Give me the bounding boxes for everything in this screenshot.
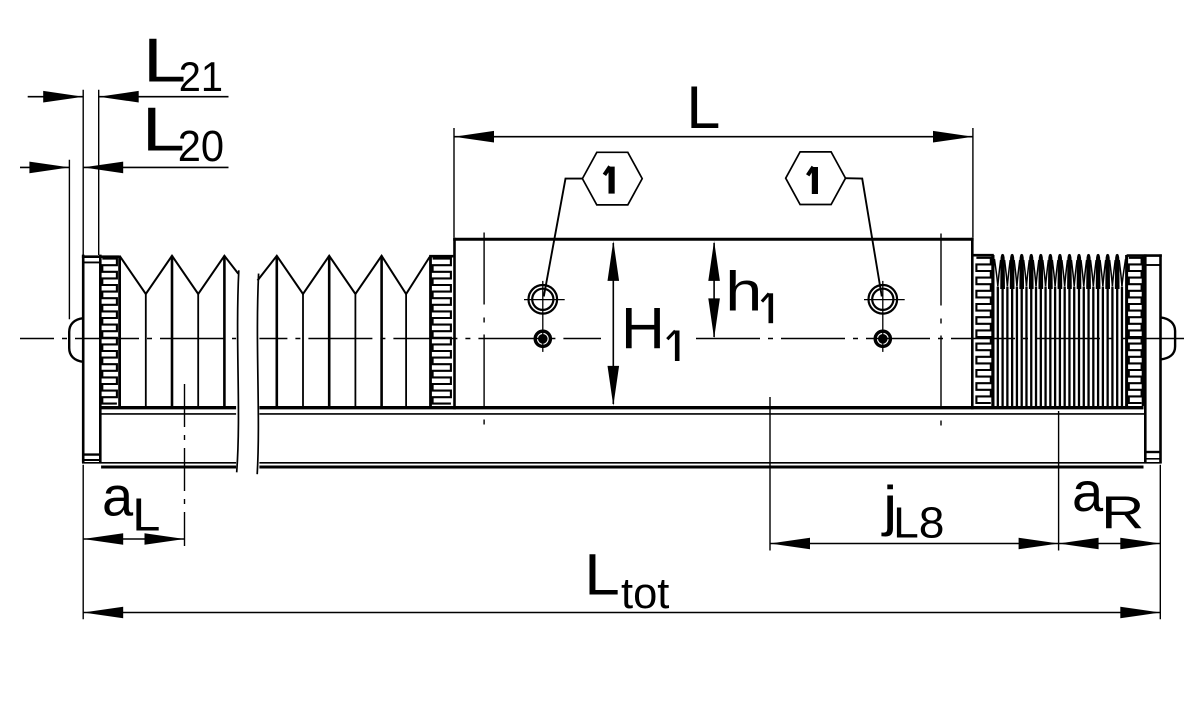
- svg-text:L: L: [584, 542, 620, 607]
- svg-text:R: R: [1101, 488, 1144, 539]
- svg-text:H: H: [621, 295, 665, 361]
- svg-text:L8: L8: [893, 498, 944, 548]
- svg-text:21: 21: [179, 53, 223, 100]
- svg-text:h: h: [725, 261, 762, 324]
- svg-text:a: a: [1072, 460, 1104, 523]
- svg-text:L: L: [686, 74, 720, 141]
- svg-text:20: 20: [178, 122, 224, 171]
- svg-text:tot: tot: [621, 570, 669, 618]
- svg-text:a: a: [102, 465, 134, 528]
- svg-text:L: L: [132, 489, 160, 540]
